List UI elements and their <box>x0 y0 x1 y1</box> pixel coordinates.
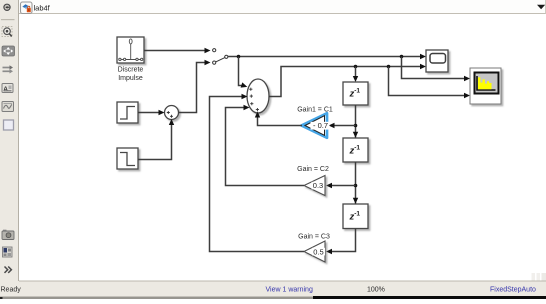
toolbar zoom icon <box>2 27 12 37</box>
svg-text:Gain = C3: Gain = C3 <box>298 234 330 241</box>
wire switch branch down to big sum in1 <box>239 57 248 88</box>
block Step down <box>117 148 138 169</box>
wire delay3 out to gain3 <box>326 229 356 255</box>
wire gain3 out to big sum in2 <box>210 94 305 252</box>
toolbar library icon <box>3 247 13 257</box>
svg-text:100%: 100% <box>367 286 385 293</box>
back button <box>4 4 10 10</box>
toolbar area icon <box>4 120 14 130</box>
wire Step down to sum bottom <box>138 119 174 160</box>
toolbar arrows icon <box>3 65 14 73</box>
tab dropdown arrow <box>537 5 545 9</box>
svg-text:A: A <box>3 86 8 93</box>
svg-text:Discrete: Discrete <box>118 67 144 74</box>
scope block <box>426 50 448 72</box>
unit delay 1 <box>343 82 368 105</box>
svg-text:0.5: 0.5 <box>313 247 323 256</box>
svg-text:Gain = C2: Gain = C2 <box>297 166 329 173</box>
toolbar curve icon <box>2 102 14 112</box>
svg-text:Impulse: Impulse <box>118 75 143 82</box>
svg-text:0.3: 0.3 <box>313 181 323 190</box>
wire gain1 out to big sum bottom <box>255 112 302 126</box>
unit delay 2 <box>343 138 368 162</box>
wire Step up to sum <box>138 110 165 115</box>
sum junction circle <box>165 106 179 120</box>
toolbar chevrons <box>5 267 12 273</box>
block Step up <box>117 102 138 123</box>
gain C2 <box>297 166 329 196</box>
unit delay 3 <box>343 204 368 229</box>
toolbar camera icon <box>2 230 14 240</box>
block Discrete Impulse <box>117 37 144 63</box>
wire delay2 to delay3 with gain2 tap <box>326 162 358 204</box>
gain1 C1 selected <box>297 107 333 138</box>
wire branch to vector scope in2 <box>389 67 471 99</box>
big sum ellipse <box>247 79 269 113</box>
toolbar separator <box>1 19 15 21</box>
svg-text:lab4f: lab4f <box>34 4 51 13</box>
wire delay1 to delay2 with gain1 tap <box>329 105 359 138</box>
toolbar fit-to-view icon <box>2 46 15 56</box>
svg-text:- 0.7: - 0.7 <box>313 121 328 130</box>
gain C3 <box>298 234 330 263</box>
svg-text:Ready: Ready <box>1 287 22 294</box>
svg-text:FixedStepAuto: FixedStepAuto <box>490 286 536 293</box>
model icon in tab <box>21 2 33 14</box>
status bar <box>0 281 546 296</box>
svg-text:View 1 warning: View 1 warning <box>266 286 313 293</box>
vector scope block <box>470 68 501 104</box>
bottom edge strip <box>0 296 546 299</box>
wire gain2 out to big sum in3 <box>226 105 305 186</box>
canvas corner grip <box>532 273 546 281</box>
wire branch down to unit delay 1 <box>353 67 358 83</box>
wire big sum out to delay chain <box>269 64 427 97</box>
wire branch to vector scope in1 <box>402 57 471 82</box>
manual switch <box>213 49 228 65</box>
toolbar annotation icon <box>2 84 13 94</box>
left toolbar background <box>0 0 19 283</box>
wire switch pole to scope and junctions <box>228 54 426 59</box>
wire sum to switch in2 <box>179 60 211 113</box>
tab bar <box>19 0 546 14</box>
wire Discrete Impulse to switch in1 <box>144 48 211 53</box>
